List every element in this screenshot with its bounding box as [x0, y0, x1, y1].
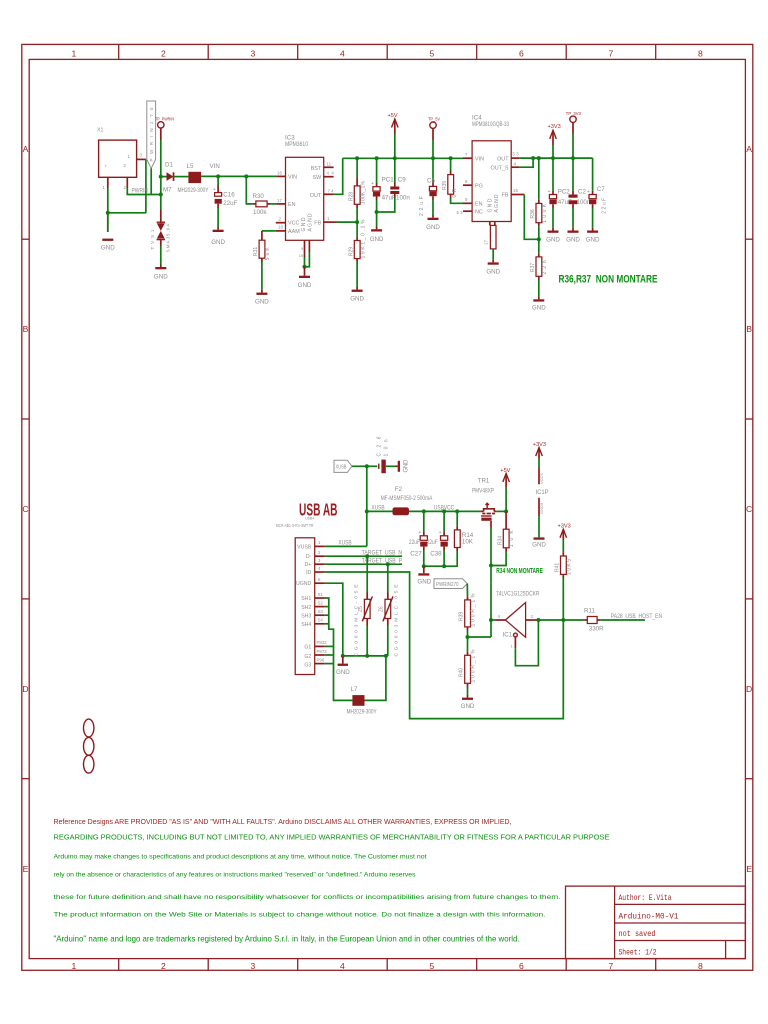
USB pin 5 stub — [315, 582, 325, 584]
wire +5V stem to rail — [505, 487, 507, 511]
svg-text:100R_1%: 100R_1% — [471, 593, 477, 627]
wire pin3 to ground rail — [145, 159, 147, 212]
svg-text:C16: C16 — [223, 192, 235, 199]
svg-text:GND3: GND3 — [539, 502, 544, 514]
svg-text:SH3: SH3 — [301, 613, 311, 619]
svg-text:+: + — [418, 530, 421, 536]
svg-text:C: C — [746, 504, 752, 514]
svg-text:B: B — [23, 324, 29, 334]
svg-text:C7: C7 — [597, 186, 605, 193]
power arrow +3V3 at R41 — [558, 524, 571, 540]
svg-text:SH1: SH1 — [301, 596, 311, 602]
wire UGND to gnd rail — [325, 583, 343, 656]
ground GND under C16 — [211, 227, 225, 246]
USB pin 4 stub — [315, 571, 325, 573]
resistor R34 — [497, 511, 515, 551]
svg-text:E: E — [746, 864, 752, 874]
testpoint TP_3V3 — [566, 111, 581, 134]
IC3 pin EN stub — [276, 203, 285, 205]
connector USB AB — [295, 538, 315, 675]
svg-text:100R_1%: 100R_1% — [471, 649, 477, 683]
wire pin1 to GND — [107, 188, 109, 213]
ground GND under R37 — [532, 297, 546, 312]
connector X1 power jack — [97, 128, 137, 178]
net flag PWRIN270 horizontal — [434, 579, 467, 589]
wire R40 to GND — [467, 687, 469, 695]
junction C27 — [422, 509, 426, 513]
wire XUSB vertical drop — [366, 511, 368, 546]
svg-text:22uF: 22uF — [223, 200, 237, 207]
wire fuse to TR1 — [409, 510, 480, 512]
ground GND under IC3 — [298, 267, 312, 289]
svg-text:R11: R11 — [584, 607, 595, 614]
junction PC1 — [375, 156, 379, 160]
power arrow +3V3 top — [548, 124, 561, 145]
svg-text:5 3: 5 3 — [457, 210, 464, 215]
junction C16 tap — [216, 174, 220, 178]
wire ground rail under X1 — [108, 212, 146, 214]
transistor TR1 PMV48XP — [472, 477, 496, 521]
junction R14 — [455, 509, 459, 513]
svg-text:10n: 10n — [383, 439, 389, 456]
wire TARGET_USB_N — [325, 555, 402, 557]
svg-text:C26: C26 — [376, 436, 382, 456]
svg-text:100n: 100n — [396, 194, 410, 201]
resistor R31 — [253, 231, 276, 262]
IC4 pin OUT_S stub — [511, 166, 519, 168]
svg-text:EN: EN — [288, 202, 296, 208]
wire pin2 to R11 — [538, 619, 584, 621]
svg-text:MH2029-300Y: MH2029-300Y — [347, 709, 377, 716]
svg-text:OUT_S: OUT_S — [491, 165, 509, 171]
svg-text:TP_5V: TP_5V — [428, 116, 441, 121]
svg-text:SMAJ5.0A: SMAJ5.0A — [166, 223, 171, 253]
svg-text:GND: GND — [488, 198, 494, 212]
wire +3V3 rail from IC4 OUT — [519, 157, 593, 159]
testpoint TP_PWRIN — [155, 116, 174, 140]
wire D1 to L5 — [174, 176, 189, 178]
op IC3 MPM3610 regulator — [285, 135, 324, 241]
junction at X1 ground — [106, 211, 110, 215]
fuse F2 — [381, 486, 433, 515]
svg-text:AGND: AGND — [494, 194, 500, 212]
svg-text:C27: C27 — [410, 551, 422, 558]
wire R37 to GND — [538, 280, 540, 297]
svg-text:8: 8 — [698, 961, 703, 971]
svg-text:4: 4 — [340, 961, 345, 971]
wire +3V3 stem — [552, 145, 554, 158]
svg-text:GND: GND — [461, 703, 475, 710]
svg-text:GND: GND — [298, 282, 312, 289]
svg-text:R31: R31 — [253, 247, 259, 256]
resistor R41 — [555, 552, 573, 578]
IC3 pin VIN stub — [276, 175, 285, 177]
junction D1 anode — [159, 175, 163, 179]
svg-text:PWRIN270: PWRIN270 — [436, 582, 459, 588]
svg-text:GND: GND — [546, 236, 560, 243]
junction R39 R40 — [466, 635, 470, 639]
IC3 pin AAM stub — [276, 230, 286, 232]
wire PC2 to GND — [552, 208, 554, 228]
wire flag to node — [352, 465, 367, 467]
svg-text:S3: S3 — [318, 609, 324, 614]
svg-text:17: 17 — [277, 198, 282, 203]
junction pin2 node — [536, 618, 540, 622]
ground GND under PC1 — [370, 227, 384, 243]
wire PC1 to GND — [376, 200, 378, 227]
resistor R35 — [442, 158, 458, 197]
svg-text:GND: GND — [301, 217, 307, 231]
USB pin 3 stub — [315, 563, 325, 565]
svg-text:FB: FB — [314, 221, 321, 227]
svg-text:PA28_USB_HOST_EN: PA28_USB_HOST_EN — [611, 613, 662, 620]
svg-text:D-: D- — [306, 554, 312, 560]
IC4 pin OUT stub — [511, 157, 519, 159]
svg-text:X1: X1 — [97, 128, 103, 134]
resistor R36 — [530, 158, 548, 226]
capacitor C26 — [376, 436, 389, 473]
capacitor C27 — [409, 511, 428, 557]
capacitor C2 — [569, 158, 591, 208]
svg-text:S1: S1 — [318, 592, 324, 597]
svg-text:7: 7 — [609, 49, 614, 59]
svg-text:10K: 10K — [462, 538, 474, 545]
resistor R14 — [454, 511, 473, 551]
junction FB divider — [355, 220, 359, 224]
wire TR1 gate down — [490, 521, 492, 528]
junction OUT_S — [531, 156, 535, 160]
svg-text:19K1_0.1%: 19K1_0.1% — [361, 219, 367, 259]
junction buffer input — [489, 618, 493, 622]
junction R28 — [355, 156, 359, 160]
svg-text:VCC: VCC — [288, 221, 299, 227]
frame column numbers bottom — [72, 961, 704, 971]
ground GND under C2 — [566, 228, 580, 244]
svg-text:R34: R34 — [497, 536, 503, 545]
wire +3V3 stem to R41 — [562, 540, 564, 553]
wire R31 to GND — [261, 262, 263, 290]
IC4 pin FB stub — [511, 194, 524, 196]
inductor L7 — [347, 686, 377, 716]
ground GND under TVS1 — [154, 265, 168, 281]
wire Z5 to gnd rail — [366, 626, 368, 656]
svg-text:R41: R41 — [555, 563, 561, 572]
junction R30 tap — [244, 174, 248, 178]
hole mark 3 — [84, 755, 94, 773]
svg-text:FB: FB — [502, 193, 509, 199]
ground GND under C7 — [586, 228, 600, 244]
svg-text:R36,R37 NON MONTARE: R36,R37 NON MONTARE — [559, 273, 658, 285]
svg-text:C6: C6 — [427, 178, 435, 185]
svg-text:8: 8 — [698, 49, 703, 59]
svg-text:47uF: 47uF — [382, 194, 396, 201]
svg-text:C38: C38 — [430, 551, 442, 558]
svg-text:M7: M7 — [163, 187, 172, 194]
wire TP_5V stem — [432, 140, 434, 158]
wire XUSB node to C26 — [367, 465, 378, 467]
resistor R30 — [246, 176, 270, 215]
net flag PWRIN270 vertical — [147, 101, 156, 168]
svg-text:Z6: Z6 — [378, 606, 384, 612]
power symbol IC1P — [532, 442, 548, 549]
svg-text:IC1P: IC1P — [536, 489, 549, 496]
buffer IC1 74LVC1G125 — [503, 603, 526, 639]
wire Z6 to gnd rail — [387, 626, 389, 656]
svg-text:+: + — [371, 181, 374, 187]
svg-text:GND: GND — [370, 236, 384, 243]
svg-text:Reference Designs ARE PROVIDED: Reference Designs ARE PROVIDED "AS IS" A… — [54, 817, 512, 826]
svg-text:16: 16 — [277, 170, 282, 175]
svg-text:A: A — [23, 144, 29, 154]
svg-text:GND: GND — [211, 239, 225, 246]
svg-text:R35: R35 — [442, 181, 448, 190]
wire R35 to IC4 EN — [451, 198, 463, 204]
svg-text:D+: D+ — [305, 562, 312, 568]
IC4 pin PG stub — [463, 184, 472, 186]
svg-text:REGARDING PRODUCTS, INCLUDING: REGARDING PRODUCTS, INCLUDING BUT NOT LI… — [54, 833, 610, 842]
wire pin4 to gate line — [491, 619, 496, 621]
svg-text:100k: 100k — [253, 209, 267, 216]
svg-text:The product information on the: The product information on the Web Site … — [54, 912, 546, 919]
junction Z5 — [365, 554, 369, 558]
resistor R11 — [584, 607, 604, 632]
IC1 pin 4 stub — [496, 619, 506, 621]
svg-text:GND: GND — [426, 224, 440, 231]
svg-text:MPM3610: MPM3610 — [285, 141, 308, 148]
frame column ticks top — [119, 44, 656, 59]
wire down to PWRIN junction — [160, 177, 162, 195]
svg-text:G2: G2 — [304, 654, 311, 660]
junction C38 gnd — [442, 564, 446, 568]
svg-text:S4: S4 — [318, 618, 324, 623]
ground GND under C27 — [417, 566, 431, 586]
svg-text:GND: GND — [336, 669, 350, 676]
svg-text:NC: NC — [475, 209, 483, 215]
svg-text:GND: GND — [101, 245, 115, 252]
svg-text:VIN: VIN — [210, 163, 220, 170]
op IC4 MPM3810GQB-33 regulator — [472, 115, 511, 222]
svg-text:AAM: AAM — [288, 229, 300, 235]
svg-text:EN: EN — [475, 201, 483, 207]
IC1 pin 2 stub — [526, 619, 539, 621]
IC3 pin FB stub — [324, 221, 337, 223]
junction C9 gnd tie — [375, 210, 379, 214]
wire G pins to chain — [325, 645, 334, 647]
svg-text:VIN: VIN — [475, 156, 484, 162]
svg-text:3: 3 — [251, 961, 256, 971]
svg-text:100n: 100n — [577, 199, 591, 206]
svg-text:C2: C2 — [578, 188, 586, 195]
svg-text:VCC5: VCC5 — [539, 473, 544, 484]
svg-text:D: D — [746, 684, 752, 694]
svg-text:OUT: OUT — [310, 193, 322, 199]
svg-text:PC2: PC2 — [558, 188, 571, 195]
junction XUSB node — [365, 464, 369, 468]
diode D1 — [161, 162, 174, 194]
USB shield pin S2 stub — [315, 606, 325, 608]
hole mark 1 — [84, 719, 94, 737]
svg-text:11: 11 — [327, 161, 332, 166]
wire R36 to junction — [538, 226, 540, 239]
capacitor C38 — [427, 511, 448, 557]
wire VUSB to XUSB drop — [325, 545, 367, 547]
svg-text:74LVC1G125DCKR: 74LVC1G125DCKR — [496, 591, 540, 598]
svg-text:GND: GND — [350, 296, 364, 303]
wire R30 to IC3 EN — [270, 203, 276, 205]
svg-text:R30: R30 — [253, 193, 265, 200]
wire PWRIN to TVS — [160, 195, 162, 210]
svg-text:2: 2 — [161, 49, 166, 59]
wire R39 to junction — [467, 631, 469, 638]
svg-text:C9: C9 — [398, 176, 406, 183]
svg-text:Sheet: 1/2: Sheet: 1/2 — [619, 948, 657, 958]
inductor L5 — [178, 163, 209, 194]
svg-text:GND: GND — [417, 579, 431, 586]
junction C27 gnd — [422, 564, 426, 568]
svg-text:7: 7 — [609, 961, 614, 971]
junction TP_5V C6 — [431, 156, 435, 160]
svg-text:MH2029-300Y: MH2029-300Y — [178, 187, 209, 194]
wire TVS to GND — [160, 246, 162, 265]
svg-text:PG: PG — [475, 183, 483, 189]
wire rail TR1 to +5V node — [496, 510, 506, 512]
svg-text:18: 18 — [278, 225, 283, 230]
svg-text:R40: R40 — [459, 668, 465, 677]
junction pullup ID — [561, 618, 565, 622]
junction R35 — [449, 156, 453, 160]
IC4 pin VIN stub — [463, 157, 472, 159]
junction C38 — [442, 509, 446, 513]
wire XUSB node down to fuse rail — [366, 466, 368, 511]
USB pin G2 stub — [315, 654, 325, 656]
svg-text:these for future definition an: these for future definition and shall ha… — [54, 894, 561, 901]
svg-text:R29: R29 — [348, 247, 354, 256]
wire C26 to rotated gnd — [386, 465, 396, 467]
frame row ticks left — [22, 239, 29, 779]
wire R28 to FB node — [356, 208, 358, 238]
svg-text:5: 5 — [430, 49, 435, 59]
IC3 pin SW stub — [324, 176, 334, 178]
resistor R39 — [459, 584, 477, 631]
svg-text:IC1: IC1 — [503, 632, 513, 639]
svg-text:4 4: 4 4 — [327, 171, 335, 176]
ground GND under PC2 — [546, 228, 560, 244]
X1 pin 1 stub — [107, 177, 109, 188]
svg-text:Arduino may make changes to sp: Arduino may make changes to specificatio… — [54, 854, 427, 861]
IC3 pin BST stub — [324, 166, 334, 168]
wire IC3 OUT up to +5V rail — [334, 158, 343, 194]
svg-text:AGND: AGND — [308, 213, 314, 231]
svg-text:TR1: TR1 — [478, 477, 490, 484]
frame row ticks right — [745, 239, 752, 779]
svg-text:UGND: UGND — [296, 581, 312, 587]
svg-text:56K: 56K — [265, 247, 271, 261]
svg-text:+: + — [587, 189, 590, 195]
frame row letters left — [22, 144, 28, 874]
wire IC3 FB to divider — [337, 221, 358, 223]
capacitor PC1 — [371, 158, 396, 201]
wire R39 R40 tap — [468, 636, 492, 638]
svg-text:D1: D1 — [165, 162, 173, 169]
wire R34 to gate node — [491, 552, 506, 566]
svg-text:XUSB: XUSB — [371, 505, 384, 512]
junction UGND gnd — [341, 654, 345, 658]
frame column ticks bottom — [119, 959, 656, 971]
junction PC2 +3V3 — [551, 156, 555, 160]
svg-text:ID: ID — [306, 570, 311, 576]
ground GND under R40 — [461, 695, 475, 710]
junction fuse rail — [365, 509, 369, 513]
svg-text:L5: L5 — [187, 163, 194, 170]
svg-text:SW: SW — [313, 175, 323, 181]
IC4 pin NC stub — [463, 210, 472, 212]
wire +5V rail segment 1 — [343, 157, 463, 159]
USB pin 2 stub — [315, 555, 325, 557]
svg-text:BST: BST — [311, 166, 322, 172]
svg-text:5: 5 — [430, 961, 435, 971]
IC1 enable pin stub — [514, 637, 516, 648]
wire R41 to node — [562, 578, 564, 620]
net flag XUSB — [334, 460, 352, 472]
USB pin G3 stub — [315, 663, 325, 665]
svg-text:F2: F2 — [395, 486, 403, 493]
svg-text:USB4: USB4 — [305, 517, 314, 521]
resistor R40 — [459, 637, 477, 687]
ground GND rotated right — [396, 459, 410, 473]
svg-text:1: 1 — [72, 961, 77, 971]
svg-text:MCR-AB1-S-RA-SMT-TR: MCR-AB1-S-RA-SMT-TR — [276, 523, 314, 528]
wire caps bottom rail — [424, 551, 457, 567]
TVS diode TVS1 — [150, 210, 170, 253]
wire C6 to GND — [432, 200, 434, 215]
svg-text:D: D — [22, 684, 28, 694]
junction PWRIN — [159, 193, 163, 197]
svg-text:19: 19 — [299, 253, 304, 258]
junction Z6 bottom — [384, 654, 388, 658]
X1 pin 3 stub — [137, 158, 146, 160]
wire R29 to GND — [356, 262, 358, 287]
wire OUT_S riser — [519, 158, 533, 167]
svg-text:SH2: SH2 — [301, 605, 311, 611]
wire X1 gnd drop green part — [107, 213, 109, 232]
svg-text:330R: 330R — [589, 625, 604, 632]
svg-text:R36: R36 — [530, 209, 536, 218]
svg-text:22K: 22K — [542, 259, 548, 275]
USB shield pin S3 stub — [315, 614, 325, 616]
svg-text:SH4: SH4 — [301, 622, 311, 628]
junction IC3 gnd — [303, 265, 307, 269]
wire enable loop — [515, 620, 538, 666]
wire L5 to IC3 VIN — [201, 175, 276, 177]
svg-text:+: + — [105, 164, 108, 169]
wire TP_PWRIN down to diode line — [160, 140, 162, 177]
capacitor C7 — [587, 158, 607, 214]
varistor Z6 — [378, 564, 399, 656]
svg-text:MPM3810GQB-33: MPM3810GQB-33 — [472, 121, 509, 128]
hole mark 2 — [84, 737, 94, 755]
svg-text:VUSB: VUSB — [297, 544, 312, 550]
svg-text:Author: E.Vita: Author: E.Vita — [619, 893, 672, 903]
wire XUSB rail to fuse — [367, 510, 393, 512]
svg-text:R37: R37 — [530, 263, 536, 272]
IC3 ground pins — [299, 240, 310, 258]
title block outline — [566, 886, 746, 959]
svg-text:GND: GND — [586, 236, 600, 243]
svg-text:PMV48XP: PMV48XP — [472, 488, 494, 495]
svg-text:1: 1 — [72, 49, 77, 59]
wire C2 to GND — [572, 208, 574, 228]
svg-text:E: E — [23, 864, 29, 874]
